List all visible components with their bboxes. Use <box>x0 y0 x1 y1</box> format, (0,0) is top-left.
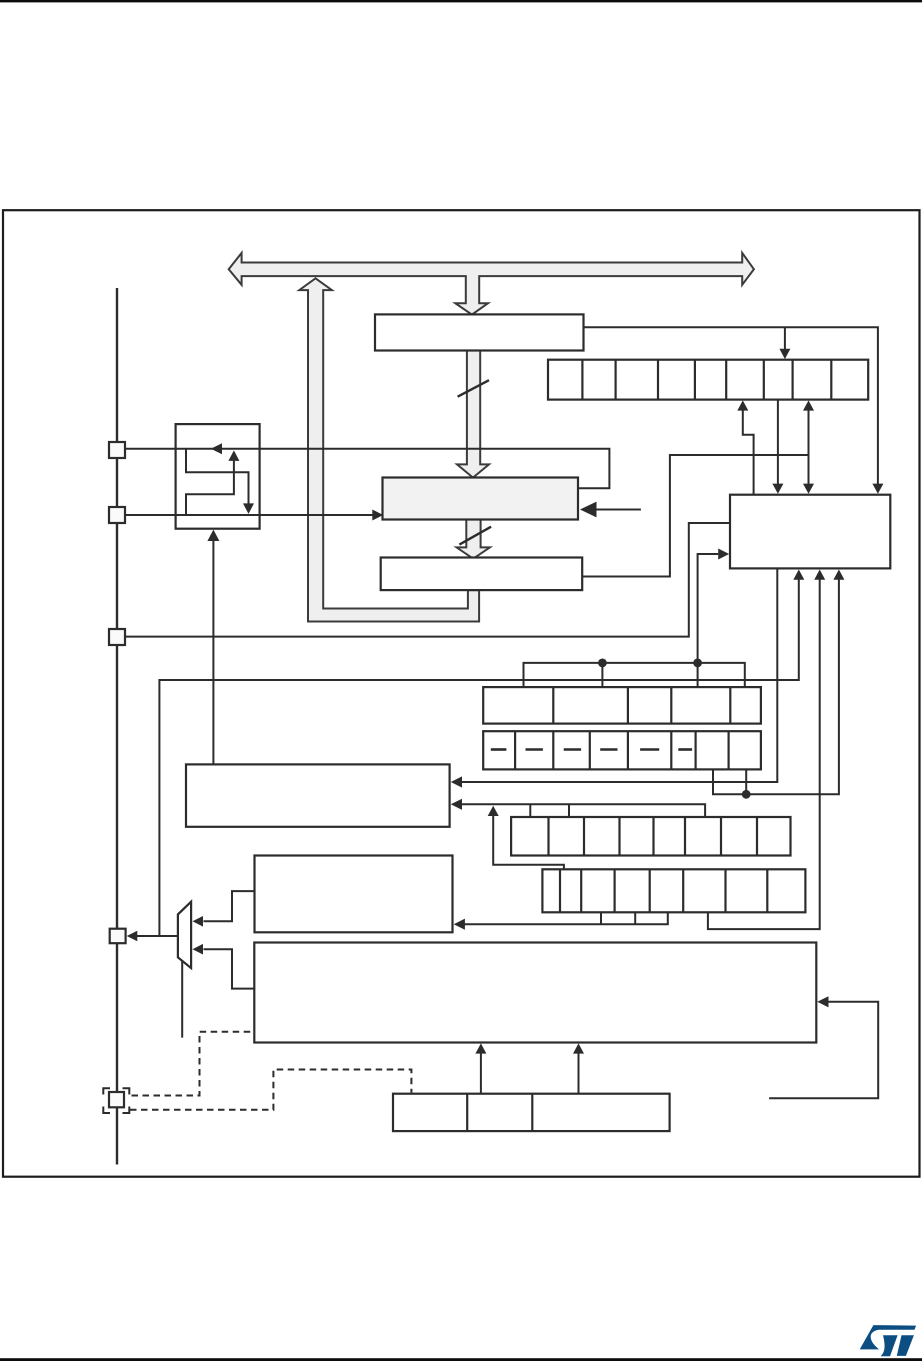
wire from state control box up to pin logic box <box>212 541 214 765</box>
wire row R4 to B7 bottom (right arrow up) <box>578 1053 580 1094</box>
wire staircase S2 inside pin logic box <box>186 461 234 515</box>
arrowhead up into B4 bottom (row R3b wire) <box>814 570 825 580</box>
wire tap W14 to row R3a top (right) <box>568 804 570 817</box>
arrowhead down S1 into P2 line <box>243 503 254 514</box>
dashed box around pin P5 (corner brackets) <box>103 1088 110 1094</box>
wire MUX output to pin P4 <box>137 935 178 937</box>
wire pin P3 (SS) to box B4 left side <box>125 523 729 637</box>
MUX trapezoid <box>178 902 191 968</box>
arrowhead left into B5 right edge (wire W14) <box>451 799 462 810</box>
wire tap from dot D1 to row R2 top <box>601 663 603 687</box>
wire from row R2 top via dot D2 to B4 left side <box>698 554 719 687</box>
wire pin P2 (MOSI) to shift register left side <box>125 514 373 516</box>
wire harness above row R2 <box>524 663 745 687</box>
wire branch from B1 wire down to row R1 top <box>784 327 786 350</box>
arrowhead right into B2 left edge <box>372 510 383 521</box>
junction dot D3 <box>742 790 751 799</box>
arrowhead left into pin P4 <box>127 931 138 942</box>
arrowhead up into B8 bottom <box>207 530 219 541</box>
wire from row R3b top up into W14 (arrow up) <box>493 816 564 870</box>
left pin bus vertical line <box>116 288 118 1165</box>
wire B7 left side to MUX lower input <box>204 949 255 988</box>
register row R1 (9 cells, top right) <box>548 360 868 400</box>
wire SCK: long horizontal to B4 bottom and down to pin P4 junction <box>159 580 798 937</box>
wire tap row R3 bottom to dot D3 <box>745 769 747 794</box>
internal data bus fat double arrow with branch down to read buffer <box>229 253 754 315</box>
wire under row R3b into B6 right side <box>464 912 668 924</box>
box B7 wide clock generator <box>254 943 816 1043</box>
wire into B7 right side <box>769 1002 878 1099</box>
junction dot D2 <box>693 659 702 668</box>
wire B4 top to row R1 bottom (jog, arrow up) <box>743 410 754 495</box>
arrowhead left into B6 right edge <box>454 919 465 930</box>
pin P2 <box>109 507 125 523</box>
wire row R3b bottom to B4 bottom (arrow up) <box>708 580 820 930</box>
bottom page rule bar <box>0 1358 922 1361</box>
register row R3b (8 cells) <box>542 869 805 912</box>
wire stub with arrow into B2 right side <box>596 509 641 511</box>
arrowhead up into B7 bottom (right) <box>573 1043 584 1053</box>
wire W14 bus line into B5 right side <box>461 804 706 817</box>
pin P3 <box>109 629 125 645</box>
fat arrow shift register B2 to box B3 <box>457 519 490 559</box>
wire from B1 right side to B4 top <box>584 327 878 485</box>
pin P4 <box>110 929 126 944</box>
bus-width slash on arrow B1-B2 <box>458 380 489 397</box>
arrowhead left into MUX upper input <box>193 916 204 927</box>
arrowhead up into B4 bottom (SCK wire) <box>793 570 804 580</box>
ST logo <box>860 1325 916 1356</box>
arrowhead up S2 into P1 line <box>228 450 239 461</box>
arrowhead up into row R1 bottom (jog wire) <box>737 400 748 410</box>
wire tap W14 to row R3a top (left) <box>529 804 531 817</box>
register row R3 (8 cells with dashes) <box>483 731 761 769</box>
arrowhead big left into B2 right edge (stub) <box>580 502 597 518</box>
register row R3a (8 cells) <box>511 817 790 856</box>
arrowhead left into MUX lower input <box>193 944 204 955</box>
arrowhead up into B7 bottom (left) <box>475 1043 486 1053</box>
register row R4 (3 cells, bottom) <box>393 1094 670 1131</box>
fat write-back arrow from box B3 bottom up to internal bus <box>299 278 479 621</box>
pin P1 <box>109 442 125 458</box>
arrowhead right into B4 left edge <box>718 549 729 560</box>
arrowhead left into B5 right edge (wire W13) <box>451 776 462 787</box>
wire W13 from B4 bottom to B5 right side <box>461 568 778 782</box>
wire pin P1 (MISO) to shift register right side <box>125 449 609 489</box>
box B5 state control (left middle) <box>186 764 450 826</box>
box B8 pin in/out logic <box>176 424 260 529</box>
box B3 <box>381 558 583 591</box>
fat arrow read buffer B1 to shift register B2 <box>457 350 489 478</box>
box B4 control (top right) <box>730 495 890 569</box>
wire B6 left side to MUX upper input <box>204 891 255 921</box>
arrowhead left into pin P1 line <box>211 443 222 454</box>
wire harness under row R3 to B4 bottom (arrow up) <box>713 580 839 795</box>
dashed wire from P5 to B7 left side <box>132 1032 254 1096</box>
reserved-bit dashes in row R3 <box>491 748 692 751</box>
dashed wire from P5 to row R4 top <box>130 1070 411 1110</box>
wire tap row R3b bottom (right) <box>634 912 636 924</box>
arrowhead left into B7 right edge <box>817 996 828 1007</box>
wire loop from B3 right side to R1/B4 wire <box>582 455 808 577</box>
top page rule bar <box>0 0 922 2</box>
arrowhead up into wire W14 from row R3b <box>488 806 499 816</box>
arrowhead down into B4 top (R1 wire) <box>772 484 783 494</box>
bus-width slash on arrow B2-B3 <box>459 527 491 545</box>
arrowhead up into row R1 bottom (bidir wire) <box>803 400 814 410</box>
wire tap row R3b bottom (left) <box>600 912 602 924</box>
arrowhead up into B4 bottom (row R3 harness) <box>833 570 844 580</box>
box B1 read buffer <box>375 314 584 350</box>
wire row R1 bottom to B4 top (arrow down) <box>777 400 779 485</box>
pin P5 <box>109 1092 124 1107</box>
wire row R4 to B7 bottom (left arrow up) <box>480 1053 482 1094</box>
wire MUX bottom stub <box>181 960 183 1037</box>
box B6 master control <box>255 856 453 933</box>
arrowhead down into B4 top from B1 wire <box>872 484 883 494</box>
figure frame <box>3 210 920 1176</box>
arrowhead down into row R1 top <box>779 349 790 359</box>
register row R2 (5 cells) <box>483 687 761 724</box>
wire row R1 / B4 bidirectional <box>808 410 810 485</box>
arrowhead down into B4 top (bidir wire) <box>803 484 814 494</box>
junction dot D1 <box>598 659 607 668</box>
wire staircase S1 inside pin logic box <box>186 449 249 504</box>
box B2 shift register (gray fill) <box>383 478 579 520</box>
